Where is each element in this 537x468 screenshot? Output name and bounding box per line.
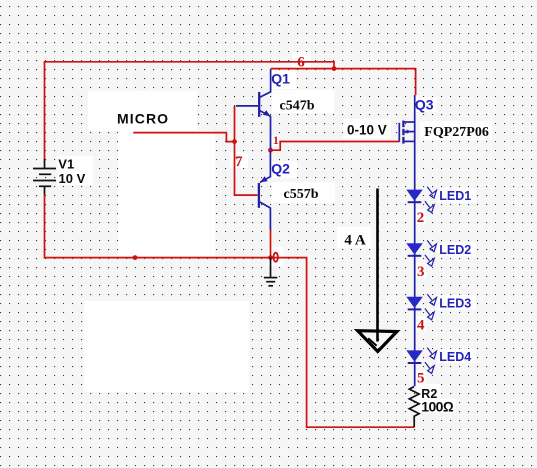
svg-text:LED4: LED4 bbox=[439, 350, 471, 364]
svg-text:10 V: 10 V bbox=[59, 171, 86, 186]
svg-text:Q1: Q1 bbox=[271, 71, 290, 87]
svg-text:5: 5 bbox=[417, 371, 425, 387]
svg-text:V1: V1 bbox=[58, 156, 74, 171]
svg-text:Q2: Q2 bbox=[271, 160, 290, 176]
svg-text:FQP27P06: FQP27P06 bbox=[424, 125, 489, 140]
svg-text:c557b: c557b bbox=[284, 187, 319, 202]
svg-text:LED3: LED3 bbox=[439, 296, 471, 310]
svg-text:MICRO: MICRO bbox=[117, 110, 169, 126]
svg-text:c547b: c547b bbox=[280, 99, 315, 114]
svg-text:1: 1 bbox=[273, 135, 279, 147]
svg-text:3: 3 bbox=[417, 264, 425, 280]
svg-text:6: 6 bbox=[297, 54, 305, 70]
svg-text:7: 7 bbox=[235, 154, 243, 170]
svg-text:100Ω: 100Ω bbox=[421, 399, 454, 415]
svg-text:4: 4 bbox=[417, 318, 425, 334]
svg-text:2: 2 bbox=[417, 210, 425, 226]
svg-text:0-10 V: 0-10 V bbox=[347, 123, 387, 138]
svg-text:LED1: LED1 bbox=[439, 189, 471, 203]
svg-text:4 A: 4 A bbox=[344, 232, 365, 248]
svg-text:LED2: LED2 bbox=[439, 243, 471, 257]
svg-text:Q3: Q3 bbox=[415, 97, 434, 113]
